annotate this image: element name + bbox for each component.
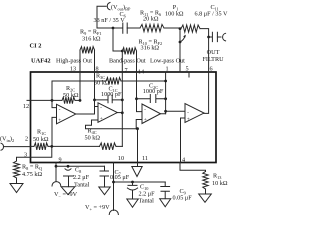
- wire A4 minus input: [166, 110, 185, 112]
- ground: [127, 199, 138, 207]
- ground: [10, 184, 23, 193]
- wire pin 3 internal: [31, 146, 52, 157]
- potentiometer P1: [181, 25, 200, 32]
- node junction BP tap: [112, 27, 115, 30]
- wire pin 14 internal: [137, 72, 143, 112]
- node junction: [55, 165, 58, 168]
- svg-text:0.05 μF: 0.05 μF: [173, 195, 193, 202]
- node junction LP minus A4: [164, 110, 167, 113]
- wire A1 inverting rail: [52, 80, 166, 82]
- svg-text:6.8 μF / 35 V: 6.8 μF / 35 V: [195, 10, 228, 17]
- svg-text:10: 10: [118, 155, 124, 162]
- wire pin 6 down: [208, 37, 210, 72]
- ground: [199, 194, 212, 202]
- wire pin1 to P1: [179, 29, 181, 72]
- svg-text:-: -: [100, 105, 102, 111]
- node junction V+ rail: [112, 181, 115, 184]
- svg-text:Low-pass Out: Low-pass Out: [150, 58, 185, 65]
- node junction P1 left: [179, 27, 182, 30]
- node junction: [51, 99, 54, 102]
- svg-text:1000 pF: 1000 pF: [143, 88, 164, 95]
- wire A2 plus input to ground rail: [86, 120, 138, 129]
- wire pin 13 internal: [79, 72, 81, 100]
- wire A1 minus input: [52, 100, 57, 107]
- svg-text:2.2 μF: 2.2 μF: [73, 174, 90, 181]
- svg-text:+: +: [58, 117, 61, 123]
- capacitor C1C leads: [95, 99, 123, 101]
- node junction A2 out: [121, 111, 124, 114]
- svg-text:5: 5: [185, 66, 188, 73]
- node junction C11 tap: [207, 36, 210, 39]
- svg-text:8: 8: [95, 66, 98, 73]
- resistor R8 RQ: [14, 161, 20, 178]
- wire: [127, 27, 140, 29]
- svg-text:High-pass Out: High-pass Out: [56, 58, 92, 65]
- op-amp A3: [142, 104, 161, 124]
- wire pin 14 stub: [136, 51, 138, 72]
- op-amp A4: [185, 104, 204, 123]
- node junction C8: [67, 165, 70, 168]
- wire V- rail: [56, 165, 105, 167]
- op-amp IC U1 UAF42 box: [31, 72, 217, 163]
- svg-text:12: 12: [23, 103, 29, 110]
- svg-text:316 kΩ: 316 kΩ: [141, 44, 160, 51]
- resistor R13: [203, 172, 208, 190]
- node OUT FILTRU connector: [223, 33, 226, 41]
- svg-text:7: 7: [124, 67, 127, 74]
- wire pin 5 stub: [188, 72, 190, 77]
- ground: [132, 167, 142, 177]
- wire A2 minus input: [95, 106, 99, 108]
- node junction plus-input tap: [50, 145, 53, 148]
- capacitor C2C leads: [137, 98, 166, 100]
- wire: [113, 27, 123, 29]
- svg-text:2: 2: [25, 136, 28, 143]
- node Vin connector: [1, 143, 3, 150]
- wire pin 4 external: [180, 163, 206, 172]
- wire to pin13 vertical: [75, 99, 80, 101]
- wire V+ rail: [114, 181, 166, 183]
- node junction: [79, 99, 82, 102]
- wire V- drop: [55, 166, 57, 181]
- wire pin 3 external: [17, 157, 31, 161]
- svg-text:4.75 kΩ: 4.75 kΩ: [22, 171, 42, 178]
- node junction C1 tap: [93, 99, 96, 102]
- node junction wiper: [179, 41, 182, 44]
- wire pin 7 BP vertical: [121, 51, 123, 146]
- svg-text:100 kΩ: 100 kΩ: [165, 10, 184, 17]
- capacitor C1C plates: [108, 95, 112, 103]
- svg-text:50 kΩ: 50 kΩ: [33, 136, 49, 143]
- wire A4 plus input to pin 4: [181, 118, 186, 163]
- capacitor C8 straight plate: [64, 176, 74, 187]
- svg-text:-: -: [59, 107, 61, 113]
- svg-text:OUT: OUT: [207, 49, 220, 56]
- svg-text:+: +: [100, 116, 103, 122]
- wire input rail: [31, 145, 123, 147]
- wire: [16, 178, 18, 184]
- svg-text:50 kΩ: 50 kΩ: [63, 92, 79, 99]
- svg-text:9: 9: [59, 157, 62, 164]
- ground: [160, 199, 171, 207]
- svg-text:V+ = +9V: V+ = +9V: [85, 204, 110, 212]
- wire A4 output to pin 6: [204, 72, 209, 113]
- svg-text:CI 2: CI 2: [30, 43, 42, 50]
- svg-text:V− = -9V: V− = -9V: [54, 191, 78, 199]
- capacitor C2C plates: [150, 95, 156, 103]
- svg-text:6: 6: [209, 66, 212, 73]
- svg-text:50 kΩ: 50 kΩ: [85, 135, 101, 142]
- wire: [205, 189, 207, 194]
- svg-text:1: 1: [165, 66, 168, 73]
- node junction C2 tap: [135, 97, 138, 100]
- resistor R1C 50k internal: [34, 143, 48, 150]
- resistor R9 RF1: [80, 47, 95, 54]
- wire A2 output: [117, 112, 122, 114]
- svg-text:Tantal: Tantal: [74, 182, 90, 189]
- capacitor C8 tantalum curved plate: [65, 169, 71, 171]
- svg-text:20 kΩ: 20 kΩ: [143, 15, 159, 22]
- node junction ground rail: [136, 127, 139, 130]
- wire: [164, 27, 180, 29]
- node junction: [121, 99, 124, 102]
- wire A1 plus input: [52, 117, 57, 146]
- svg-text:-: -: [187, 109, 189, 115]
- node junction rail-LP: [164, 80, 167, 83]
- wire: [209, 36, 212, 38]
- resistor R10 RF2: [122, 48, 136, 55]
- wire pin 10 V+: [113, 163, 115, 211]
- node junction: [164, 97, 167, 100]
- wire rail corner to minus node: [51, 81, 53, 100]
- capacitor C11 polarized: [212, 32, 217, 41]
- svg-text:50 kΩ: 50 kΩ: [94, 80, 110, 87]
- svg-text:UAF42: UAF42: [31, 58, 51, 65]
- wire pin 9 stub: [55, 163, 57, 167]
- wire A3 plus input: [136, 120, 142, 129]
- node junction C10: [131, 181, 134, 184]
- svg-text:10 kΩ: 10 kΩ: [212, 180, 228, 187]
- node V+ connector: [109, 210, 118, 215]
- wire ground rail to pin 11: [137, 129, 139, 163]
- svg-text:+: +: [144, 117, 147, 123]
- wire BP tap to pin 7: [113, 28, 122, 51]
- svg-text:11: 11: [142, 155, 148, 162]
- node Vout_BP connector: [107, 3, 110, 10]
- resistor R4C 50k internal: [100, 143, 117, 150]
- svg-text:0.05 μF: 0.05 μF: [110, 174, 130, 181]
- wire: [97, 6, 113, 28]
- svg-text:316 kΩ: 316 kΩ: [82, 36, 101, 43]
- resistor R2C 50k internal: [62, 97, 75, 104]
- wire A3 output: [161, 113, 166, 115]
- svg-text:2.2 μF: 2.2 μF: [139, 191, 156, 198]
- svg-text:Band-pass Out: Band-pass Out: [109, 58, 146, 65]
- resistor R3C 50k internal: [106, 78, 121, 85]
- wire pin 12 line: [27, 99, 62, 101]
- svg-text:13: 13: [70, 66, 76, 73]
- ground: [61, 187, 75, 195]
- svg-text:14: 14: [138, 69, 144, 76]
- capacitor C7: [100, 166, 109, 187]
- capacitor C10 tantalum: [128, 182, 137, 185]
- svg-text:-: -: [144, 106, 146, 112]
- capacitor C10 curved plate: [127, 188, 137, 199]
- svg-text:4: 4: [182, 157, 185, 164]
- wire P1 right to pin 6: [200, 29, 209, 37]
- svg-text:+: +: [187, 117, 190, 123]
- op-amp A1: [57, 104, 76, 124]
- wire pin 11 to ground: [137, 163, 139, 167]
- wire P1 wiper arm: [180, 35, 185, 42]
- resistor R11: [140, 24, 164, 31]
- node V- connector: [52, 182, 61, 186]
- ground: [99, 187, 110, 195]
- svg-text:1000 pF: 1000 pF: [101, 91, 122, 98]
- wire A1 output to pin 8: [76, 72, 95, 114]
- svg-text:3: 3: [24, 152, 27, 159]
- svg-text:FILTRU: FILTRU: [202, 56, 224, 63]
- wire pin 13 stub: [79, 50, 81, 72]
- node junction pin 7 top: [121, 50, 124, 53]
- wire input: [4, 146, 30, 148]
- svg-text:33 nF / 35 V: 33 nF / 35 V: [94, 17, 126, 24]
- capacitor C6: [123, 23, 127, 33]
- capacitor C9: [161, 182, 170, 199]
- svg-text:Tantal: Tantal: [139, 198, 155, 205]
- op-amp A2: [98, 103, 117, 123]
- wire pin 8 stub: [94, 50, 96, 72]
- wire LP vertical pin 1: [165, 72, 167, 114]
